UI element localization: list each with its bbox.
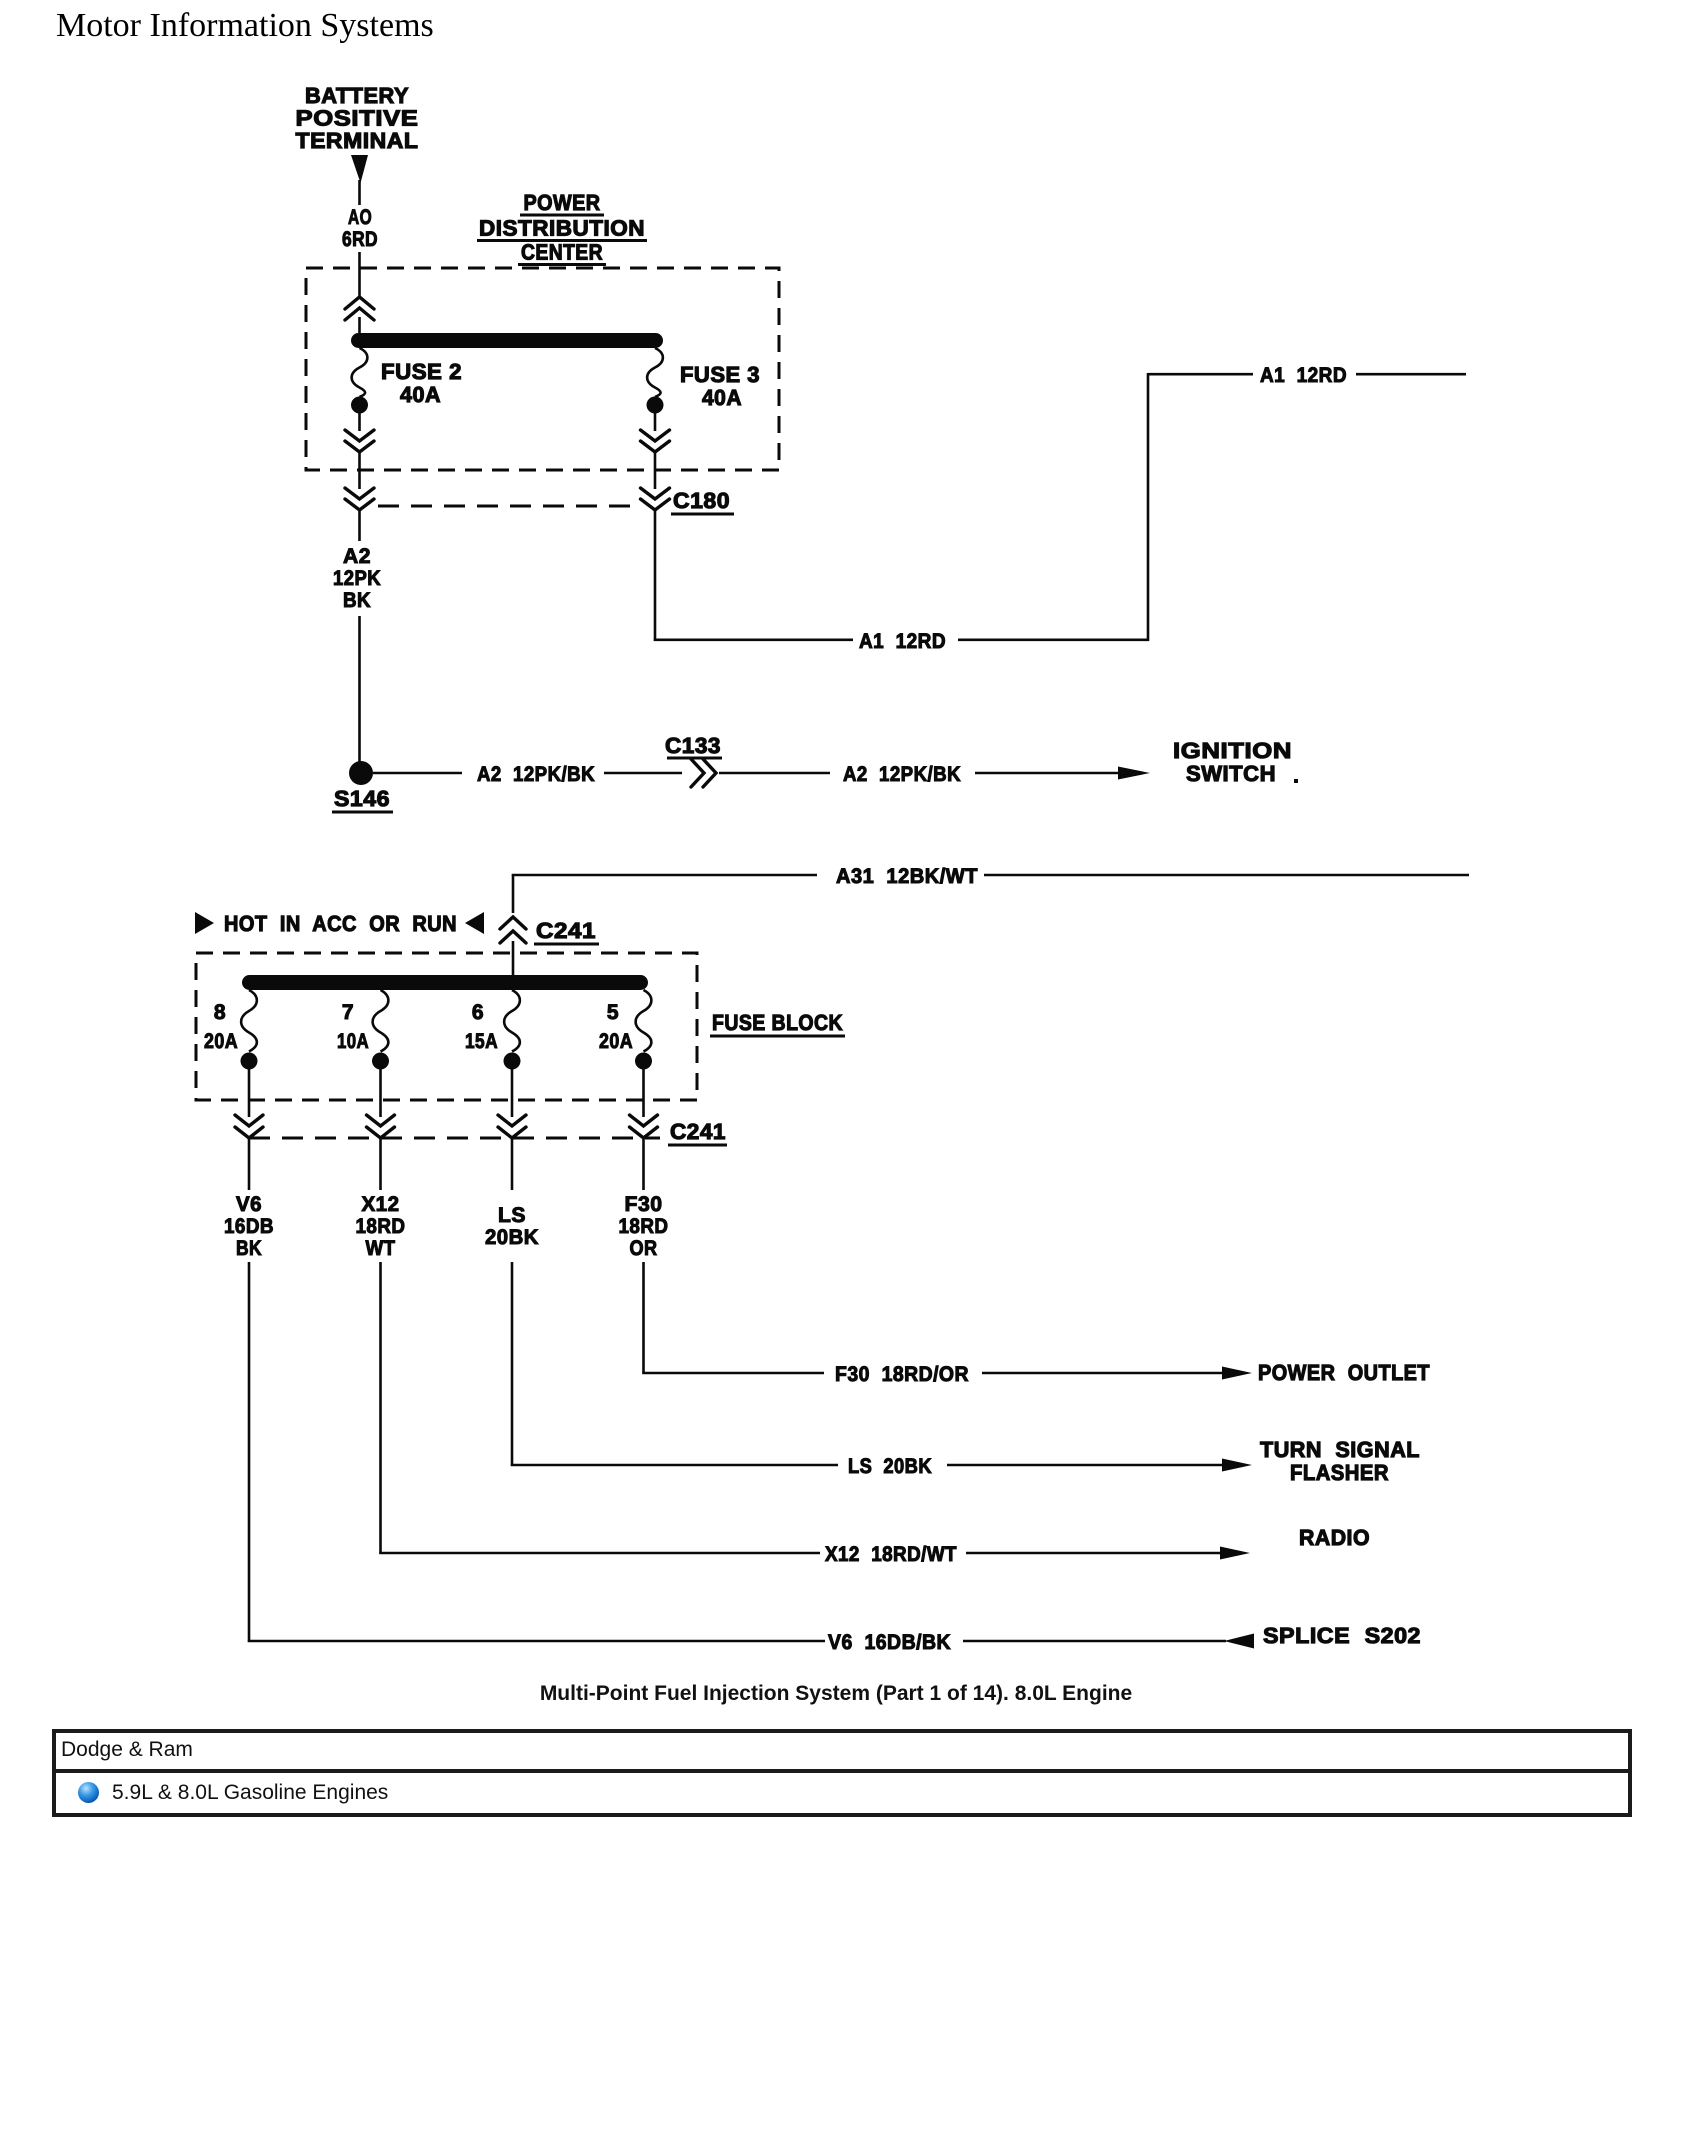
svg-text:CENTER: CENTER xyxy=(521,240,603,265)
svg-text:15A: 15A xyxy=(465,1030,498,1053)
fuse 3 node dot xyxy=(647,397,664,414)
arrow to turn signal flasher xyxy=(1222,1459,1252,1472)
wire label F30 18RD OR xyxy=(619,1193,669,1260)
wire below fuse 2 with connector chevrons xyxy=(345,413,374,541)
svg-text:C180: C180 xyxy=(673,488,730,513)
svg-text:DISTRIBUTION: DISTRIBUTION xyxy=(479,216,645,241)
fuse 5 label xyxy=(599,1001,633,1053)
svg-text:A31 12BK/WT: A31 12BK/WT xyxy=(836,865,978,888)
connector chevrons into PDC (wire A0) xyxy=(345,297,374,334)
fuse block label xyxy=(710,1010,845,1036)
connector C241 upper chevrons xyxy=(500,917,526,977)
fuse 7 label xyxy=(337,1001,369,1053)
battery terminal arrow xyxy=(351,155,368,183)
svg-text:FLASHER: FLASHER xyxy=(1290,1460,1389,1485)
wire label V6 16DB BK xyxy=(224,1193,274,1260)
svg-text:RADIO: RADIO xyxy=(1299,1525,1370,1550)
wire below fuse 3 with connector chevrons xyxy=(641,413,670,510)
bottom info table xyxy=(52,1729,1632,1817)
svg-text:C241: C241 xyxy=(670,1119,726,1144)
svg-text:WT: WT xyxy=(366,1237,396,1260)
wire F30 to power outlet xyxy=(642,1262,1222,1374)
connector C241 lower dashed line xyxy=(249,1137,660,1140)
ignition switch label xyxy=(1173,738,1298,786)
diagram caption xyxy=(0,1682,1686,1706)
svg-text:TURN SIGNAL: TURN SIGNAL xyxy=(1260,1437,1420,1462)
wire A2 12PK/BK horizontal run xyxy=(373,772,1119,775)
svg-text:A1 12RD: A1 12RD xyxy=(859,630,946,653)
svg-text:A1 12RD: A1 12RD xyxy=(1260,364,1347,387)
battery positive terminal label xyxy=(296,83,419,153)
svg-text:POSITIVE: POSITIVE xyxy=(296,106,419,131)
svg-text:FUSE 3: FUSE 3 xyxy=(680,362,760,387)
wire label L5 20BK xyxy=(485,1204,539,1249)
svg-text:C133: C133 xyxy=(665,733,721,758)
svg-text:18RD: 18RD xyxy=(356,1215,406,1238)
svg-text:C241: C241 xyxy=(536,918,596,943)
svg-text:OR: OR xyxy=(630,1237,658,1260)
svg-text:BK: BK xyxy=(236,1237,262,1260)
reversed arrow at splice xyxy=(1224,1634,1254,1649)
svg-text:HOT IN ACC OR RUN: HOT IN ACC OR RUN xyxy=(224,911,457,936)
hot in acc or run banner xyxy=(195,911,484,936)
arrow to power outlet xyxy=(1222,1367,1252,1380)
PDC bus bar xyxy=(351,333,663,348)
wire label A2 12PK BK xyxy=(333,545,381,612)
fuse 2 node dot xyxy=(351,397,368,414)
connector C180 dashed line xyxy=(378,505,641,508)
svg-text:IGNITION: IGNITION xyxy=(1173,738,1292,763)
wire A2 down to splice xyxy=(358,616,361,765)
svg-text:18RD: 18RD xyxy=(619,1215,669,1238)
fuse 7 dot xyxy=(372,1053,389,1070)
power distribution center label xyxy=(477,190,647,265)
wire A0 6RD vertical xyxy=(358,180,361,297)
svg-text:LS 20BK: LS 20BK xyxy=(848,1455,932,1478)
svg-text:40A: 40A xyxy=(400,382,441,407)
svg-text:20A: 20A xyxy=(599,1030,633,1053)
svg-text:LS: LS xyxy=(498,1204,526,1227)
svg-text:A2 12PK/BK: A2 12PK/BK xyxy=(477,763,595,786)
wire X12 to radio xyxy=(379,1262,1220,1554)
connector C133 label xyxy=(665,733,722,758)
wire label X12 18RD WT xyxy=(356,1193,406,1260)
connector C180 label xyxy=(671,488,734,514)
wires out of fuse block with connector chevrons xyxy=(235,1069,263,1190)
svg-text:FUSE BLOCK: FUSE BLOCK xyxy=(712,1010,843,1035)
svg-text:POWER OUTLET: POWER OUTLET xyxy=(1258,1360,1430,1385)
wire L5 to turn signal flasher xyxy=(511,1262,1222,1466)
fuse 6 (squiggle) xyxy=(504,990,520,1052)
fuse 2 label xyxy=(381,359,462,407)
svg-text:6RD: 6RD xyxy=(342,228,378,251)
fuse 3 element (squiggle) xyxy=(647,348,663,397)
splice S146 dot xyxy=(349,761,373,785)
fuse 2 element (squiggle) xyxy=(352,348,368,397)
fuse 6 dot xyxy=(504,1053,521,1070)
arrow to radio xyxy=(1220,1547,1250,1560)
svg-text:5: 5 xyxy=(607,1001,619,1024)
svg-text:20BK: 20BK xyxy=(485,1226,539,1249)
svg-text:SWITCH: SWITCH xyxy=(1186,761,1276,786)
svg-text:FUSE 2: FUSE 2 xyxy=(381,359,462,384)
svg-text:F30 18RD/OR: F30 18RD/OR xyxy=(835,1363,969,1386)
fuse 8 (squiggle) xyxy=(241,990,257,1052)
svg-text:TERMINAL: TERMINAL xyxy=(296,128,419,153)
svg-text:7: 7 xyxy=(342,1001,354,1024)
fuse 6 label xyxy=(465,1001,498,1053)
svg-text:S146: S146 xyxy=(334,786,390,811)
connector C241 upper label xyxy=(534,918,599,944)
fuse 3 label xyxy=(680,362,760,410)
svg-text:BATTERY: BATTERY xyxy=(305,83,409,108)
page title xyxy=(56,7,434,45)
label A0 6RD xyxy=(342,206,378,251)
svg-text:POWER: POWER xyxy=(524,190,601,215)
wire A31 12BK/WT xyxy=(512,874,1469,913)
svg-text:A2: A2 xyxy=(343,545,371,568)
svg-text:6: 6 xyxy=(472,1001,484,1024)
wire A1 12RD from fuse 3 xyxy=(654,373,1466,641)
svg-text:40A: 40A xyxy=(702,385,742,410)
svg-text:12PK: 12PK xyxy=(333,567,381,590)
svg-text:AO: AO xyxy=(348,206,372,229)
fuse 8 label xyxy=(204,1001,238,1053)
svg-text:8: 8 xyxy=(214,1001,226,1024)
fuse 7 (squiggle) xyxy=(373,990,389,1052)
fuse block dashed box xyxy=(196,953,697,1100)
svg-text:BK: BK xyxy=(343,589,371,612)
svg-text:F30: F30 xyxy=(625,1193,663,1216)
power distribution center dashed box xyxy=(306,268,779,470)
fuse 5 dot xyxy=(635,1053,652,1070)
wire V6 to splice S202 xyxy=(248,1262,1226,1642)
turn signal flasher label xyxy=(1260,1437,1420,1485)
svg-text:10A: 10A xyxy=(337,1030,369,1053)
svg-text:20A: 20A xyxy=(204,1030,238,1053)
svg-text:16DB: 16DB xyxy=(224,1215,274,1238)
fuse 8 dot xyxy=(241,1053,258,1070)
svg-text:X12: X12 xyxy=(362,1193,400,1216)
svg-text:V6 16DB/BK: V6 16DB/BK xyxy=(828,1631,951,1654)
arrow to ignition switch xyxy=(1118,767,1150,780)
connector C241 lower label xyxy=(668,1119,727,1145)
svg-text:A2 12PK/BK: A2 12PK/BK xyxy=(843,763,961,786)
svg-text:SPLICE S202: SPLICE S202 xyxy=(1263,1623,1421,1648)
fuse block bus bar xyxy=(242,975,648,990)
svg-text:V6: V6 xyxy=(236,1193,262,1216)
splice S146 label xyxy=(332,786,393,812)
fuse 5 (squiggle) xyxy=(636,990,652,1052)
svg-text:X12 18RD/WT: X12 18RD/WT xyxy=(825,1543,957,1566)
connector C133 chevrons xyxy=(691,759,716,787)
